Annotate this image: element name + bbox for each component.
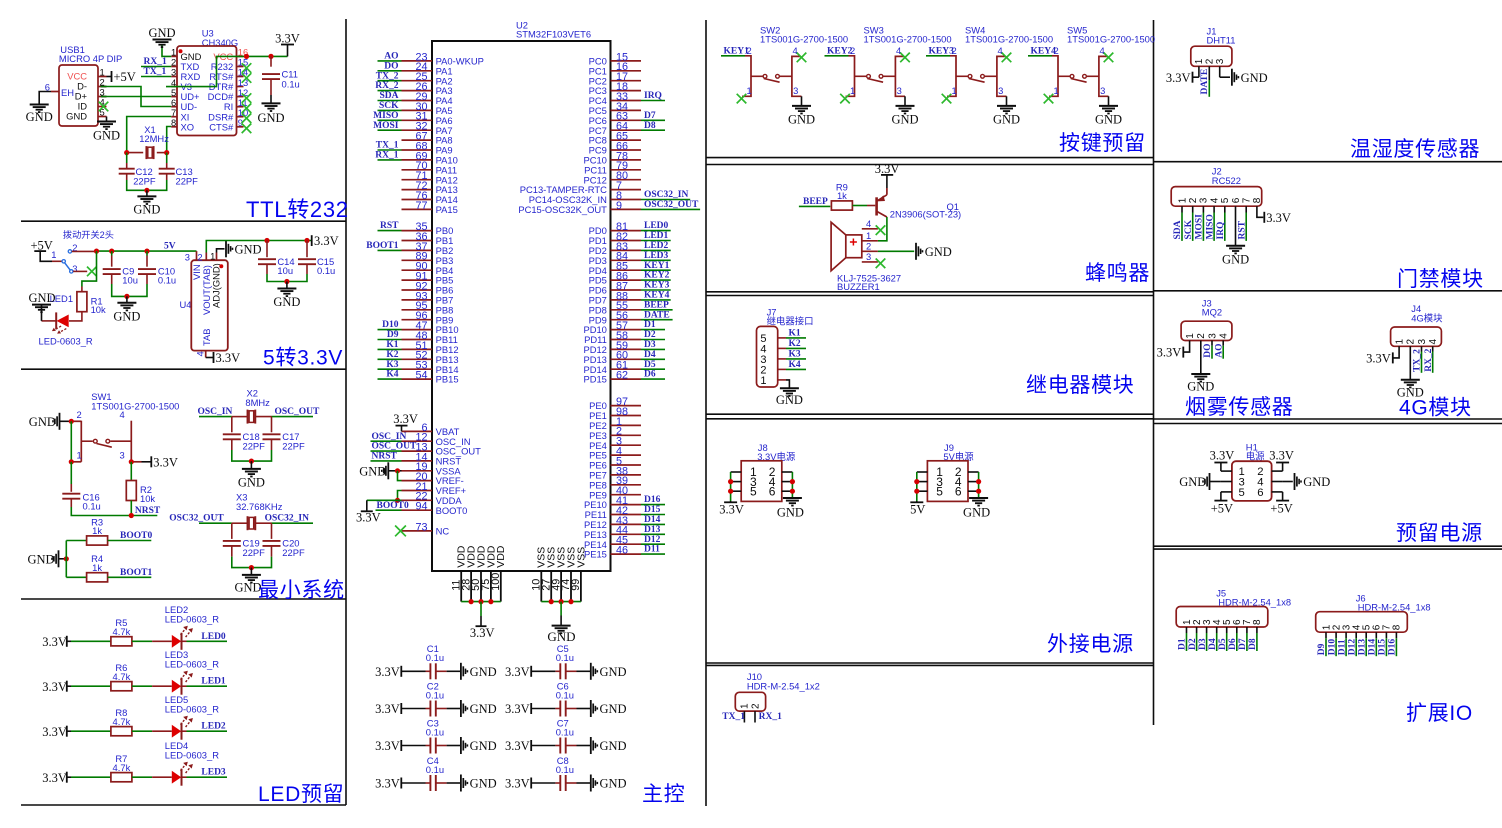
net label BOOT1 [366,241,398,251]
svg-text:4: 4 [1100,45,1105,56]
net label DATE [1200,69,1210,95]
wire D3 [1206,627,1208,651]
svg-text:1: 1 [740,703,751,709]
svg-text:3.3V: 3.3V [375,777,400,791]
svg-text:拨动开关2头: 拨动开关2头 [63,229,114,240]
junction [469,599,474,604]
IC U3 CH340G [171,28,248,136]
net label BEEP [803,197,828,207]
svg-text:5: 5 [1220,197,1231,203]
ground (C6) [591,700,627,717]
section title 4G模块 [1399,397,1472,420]
wire [1200,341,1202,375]
svg-text:OSC32_OUT: OSC32_OUT [644,200,699,210]
svg-text:1: 1 [1394,339,1405,345]
connector J9 5V电源 [917,442,979,502]
net label LED1 [644,231,669,241]
power 3.3V (R8 row) [42,725,71,739]
wire D1 [1186,627,1188,651]
wire [641,543,665,545]
junction [976,479,981,484]
svg-text:K1: K1 [386,340,398,350]
ground (J1 pin3) [1220,69,1268,86]
wire [641,339,665,341]
power 3.3V (J8 left pins) [719,501,744,516]
svg-text:5V: 5V [910,502,925,516]
wire [166,153,168,169]
LED LED1 LED-0603_R [39,293,93,347]
U2 pin 45 PE14 [584,535,641,550]
resistor R4 1k [87,553,108,582]
junction [790,479,795,484]
wire [436,745,461,747]
svg-text:D4: D4 [644,350,656,360]
svg-text:LED2: LED2 [644,241,669,251]
svg-text:22PF: 22PF [243,440,266,451]
svg-text:0.1u: 0.1u [317,265,335,276]
ground (C7) [591,737,627,754]
wire D6 [1236,627,1238,651]
IC U2 STM32F103VET6 [432,20,611,572]
wire [162,46,171,57]
power 3.3V (U4 TAB) [206,351,240,365]
connector J2 RC522 [1171,166,1263,207]
wire DATE [1208,80,1210,97]
svg-text:D16: D16 [644,495,661,505]
wire [531,670,560,672]
wire [146,190,148,196]
svg-text:IRQ: IRQ [644,91,662,101]
wire [786,337,806,339]
power 3.3V (J4 pin1) [1366,346,1399,365]
svg-text:+5V: +5V [1211,501,1233,515]
svg-text:扩展IO: 扩展IO [1406,702,1473,725]
svg-text:BOOT0: BOOT0 [436,505,468,516]
net label D9 [1317,643,1327,655]
ground (C8) [591,775,627,792]
capacitor C12 22PF [119,166,156,186]
svg-text:0.1u: 0.1u [426,689,444,700]
U2 pin 74 VSS [560,547,577,602]
svg-text:主控: 主控 [642,783,685,806]
section title 按键预留 [1059,132,1146,155]
net label LED1 [201,677,226,687]
svg-text:0.1u: 0.1u [556,652,574,663]
svg-text:LED3: LED3 [644,251,669,261]
U2 pin 44 PE13 [584,525,641,540]
wire [436,782,461,784]
junction [549,599,554,604]
U2 pin 83 PD2 [589,241,641,256]
net label LED3 [201,768,226,778]
svg-text:NRST: NRST [372,452,398,462]
capacitor C20 22PF [263,538,305,558]
wire [112,274,147,296]
svg-text:K4: K4 [386,370,398,380]
U2 pin 10 VSS [531,547,548,602]
U2 pin 23 PA0-WKUP [402,51,484,66]
ground (USB1 pin6) [26,105,53,125]
svg-text:9: 9 [616,200,622,212]
wire [641,100,665,102]
svg-text:22PF: 22PF [133,176,156,187]
svg-text:GND: GND [470,702,497,716]
svg-text:GND: GND [470,665,497,679]
wire [786,380,789,388]
svg-text:最小系统: 最小系统 [258,579,345,602]
svg-text:D10: D10 [382,320,399,330]
svg-text:MISO: MISO [1205,214,1215,239]
svg-text:MISO: MISO [373,111,398,121]
ground (J3 pin2) [1187,374,1214,394]
capacitor C13 22PF [159,166,198,186]
svg-text:LED2: LED2 [201,722,226,732]
net label K2 [789,339,801,349]
net label D10 [1327,639,1337,656]
wire [42,320,57,322]
capacitor C4 0.1u [426,755,444,791]
U2 pin 71 PA12 [402,170,458,185]
junction [109,249,114,254]
U2 pin 25 PA2 [402,71,453,86]
svg-text:DATE: DATE [644,310,670,320]
net label RX_1 [144,57,167,67]
svg-text:RX_2: RX_2 [375,81,398,91]
U2 pin 12 OSC_IN [402,432,471,447]
wire [266,241,268,258]
power 3.3V (regulator output) [312,234,339,248]
U2 pin 58 PD11 [584,330,641,345]
svg-text:62: 62 [616,370,628,382]
ground (U2 VSSA VREF-) [359,462,401,479]
net label SCK [1184,219,1194,239]
junction [914,479,919,484]
svg-text:OSC_IN: OSC_IN [198,407,233,417]
net label D1 [1178,638,1188,650]
wire [107,76,112,78]
U2 pin 2 PE3 [589,426,641,441]
svg-text:D13: D13 [644,525,661,535]
svg-text:3.3V: 3.3V [375,665,400,679]
wire [130,501,132,516]
U2 pin 4 PE5 [589,446,641,461]
svg-text:4: 4 [1428,339,1439,345]
power 3.3V (J3 pin1) [1157,341,1190,360]
svg-text:K4: K4 [789,360,801,370]
net label LED0 [644,221,669,231]
wire [1224,206,1226,241]
svg-text:6: 6 [769,484,776,498]
svg-text:1: 1 [952,85,957,96]
wire [878,250,914,252]
net label D7 [644,111,656,121]
ground (X2 caps) [238,469,265,490]
svg-text:D14: D14 [644,515,661,525]
U2 pin 55 PD8 [589,300,641,315]
wire [531,782,560,784]
power 3.3V (C5) [505,665,531,679]
svg-text:TX_1: TX_1 [376,141,399,151]
svg-text:烟雾传感器: 烟雾传感器 [1185,396,1294,419]
svg-text:DATE: DATE [1200,69,1210,95]
junction [488,599,493,604]
svg-text:1: 1 [210,251,215,262]
net label D16 [644,495,661,505]
net label OSC_OUT [272,407,321,417]
svg-text:PA15: PA15 [436,204,458,215]
wire [182,730,227,732]
net label D16 [1388,639,1398,656]
wire [182,776,227,778]
ground (BUZZER1 pin 2) [916,243,952,260]
svg-text:0.1u: 0.1u [158,275,176,286]
svg-text:3.3V: 3.3V [1269,448,1294,462]
net label KEY2 [827,47,853,57]
wire D13 [1365,632,1367,656]
junction [69,459,74,464]
svg-text:D15: D15 [644,505,661,515]
net label AO [384,52,398,62]
U2 pin 49 VSS [550,547,567,602]
net label D10 [382,320,399,330]
wire [130,462,132,481]
svg-text:D15: D15 [1378,639,1388,656]
U2 pin 61 PD14 [583,360,641,375]
wire [641,259,671,261]
svg-text:1: 1 [1177,197,1188,203]
capacitor C18 22PF [223,431,265,451]
power +5V (H1 pin6) [1270,492,1292,515]
svg-text:GND: GND [28,553,55,567]
net label OSC32_OUT [169,514,232,524]
switch SW1 1TS001G-2700-1500 [71,391,179,462]
switch SW3 1TS001G-2700-1500 [846,24,952,96]
svg-text:3: 3 [185,251,190,262]
svg-text:D3: D3 [644,340,656,350]
ground (U2 VSS) [547,602,575,644]
wire [1181,206,1183,241]
U2 pin 29 PA4 [402,91,453,106]
svg-text:PD15: PD15 [583,374,606,385]
section title 预留电源 [1396,522,1483,545]
wire [641,368,665,370]
U2 pin 88 PD7 [589,290,641,305]
svg-text:SDA: SDA [1173,220,1183,239]
power 3.3V (H1 pin2) [1269,448,1294,471]
U2 pin 99 VSS [570,547,587,602]
wire [270,79,272,103]
U2 pin 47 PB10 [402,320,459,335]
wire [1028,55,1052,57]
section title 烟雾传感器 [1185,396,1294,419]
wire [378,129,402,131]
svg-text:3.3V: 3.3V [1266,211,1291,225]
svg-text:32.768KHz: 32.768KHz [236,501,283,512]
svg-text:外接电源: 外接电源 [1047,633,1134,656]
no-connect X on U3 pin 14 [242,73,252,83]
svg-text:GND: GND [26,110,53,124]
ground (C3) [461,737,497,754]
crystal X2 8MHz [232,388,272,424]
transistor Q1 2N3906(SOT-23) [877,188,962,220]
svg-text:3.3V: 3.3V [505,702,530,716]
U2 pin 87 PD6 [589,280,641,295]
resistor R7 4.7k [111,753,132,782]
svg-text:3.3V: 3.3V [42,725,67,739]
section title LED预留 [258,783,344,806]
wire [641,553,665,555]
U2 pin 20 VREF- [402,471,464,486]
wire [378,119,402,121]
svg-text:温湿度传感器: 温湿度传感器 [1350,138,1480,161]
svg-text:RX_2: RX_2 [1424,348,1434,371]
capacitor C1 0.1u [426,643,444,679]
svg-text:3.3V: 3.3V [42,680,67,694]
net label D5 [1218,638,1228,650]
svg-text:2: 2 [77,409,82,420]
section title 扩展IO [1406,702,1473,725]
net label D2 [644,330,656,340]
svg-text:D8: D8 [1248,638,1258,650]
U2 pin 36 PB1 [402,231,454,246]
wire 5V net [94,250,196,252]
svg-text:3: 3 [1100,85,1105,96]
svg-text:GND: GND [1187,380,1214,394]
svg-text:CTS#: CTS# [209,121,234,132]
svg-text:GND: GND [547,629,575,644]
svg-text:KEY4: KEY4 [1031,47,1057,57]
svg-text:8: 8 [1252,619,1263,625]
wire [132,640,172,642]
wire [641,230,671,232]
svg-text:2: 2 [1188,197,1199,203]
svg-text:GND: GND [1241,71,1268,85]
junction [728,479,733,484]
svg-text:PB15: PB15 [436,374,459,385]
U2 pin 30 PA5 [402,101,453,116]
wire [371,450,402,452]
wire [641,269,671,271]
resistor R1 10k [77,292,106,315]
resistor R2 10k [126,481,155,504]
connector H1 电源 [1221,442,1283,501]
wire [71,685,111,687]
svg-text:100: 100 [490,573,502,591]
wire [641,319,673,321]
net label SCK [379,101,399,111]
U2 pin 64 PC7 [589,121,641,136]
LED LED5 LED-0603_R [165,694,219,740]
U2 pin 81 PD0 [589,221,641,236]
U2 pin 76 PA14 [402,190,458,205]
connector J5 HDR-M-2.54_1x8 [1176,587,1291,627]
svg-text:3.3V: 3.3V [375,702,400,716]
svg-text:0.1u: 0.1u [83,501,101,512]
svg-text:22PF: 22PF [243,547,266,558]
connector J4 4G模块 [1391,303,1444,346]
U2 pin 38 PE7 [589,465,641,480]
net label D13 [644,525,661,535]
section title 主控 [642,783,685,806]
svg-text:1: 1 [1185,333,1196,339]
net label SDA [1173,220,1183,239]
wire [801,96,803,106]
connector J1 DHT11 [1191,25,1236,80]
svg-text:D12: D12 [644,535,661,545]
no-connect X on U3 pin 9 [242,124,252,134]
capacitor C10 0.1u [138,265,176,285]
svg-text:KEY1: KEY1 [724,47,750,57]
wire [378,90,402,92]
wire [378,159,402,161]
resistor R9 1k [831,181,852,210]
wire [1108,96,1110,106]
wire [132,776,172,778]
no-connect X on SW2 pin 1 [737,94,747,104]
svg-text:D1: D1 [1178,638,1188,650]
svg-text:22PF: 22PF [176,176,199,187]
svg-text:TX_1: TX_1 [722,712,745,722]
svg-text:GND: GND [470,739,497,753]
wire [267,264,307,281]
U2 pin 31 PA6 [402,111,453,126]
power +5V (H1 pin5) [1211,492,1233,515]
U2 pin 11 VDD [450,545,467,601]
svg-text:2: 2 [197,251,202,262]
U2 pin 8 PC14-OSC32K_IN [529,190,641,205]
svg-text:GND: GND [1095,113,1122,127]
net label D1 [644,320,656,330]
U2 pin 37 PB2 [402,241,454,256]
wire [126,153,128,169]
net label OSC32_IN [265,514,313,524]
svg-text:GND: GND [66,111,87,122]
svg-text:D2: D2 [1188,638,1198,650]
net label RX_1 [375,151,398,161]
svg-text:5: 5 [750,484,757,498]
power 3.3V (H1 pin1) [1210,448,1235,471]
junction [268,54,273,59]
junction [244,54,249,59]
wire [1245,206,1247,241]
svg-text:KEY2: KEY2 [827,47,853,57]
wire [82,251,97,292]
svg-text:K2: K2 [386,350,398,360]
capacitor C19 22PF [223,538,265,558]
svg-text:3.3V: 3.3V [1166,71,1191,85]
U2 pin 54 PB15 [402,370,459,385]
power 3.3V (C8) [505,777,531,791]
connector USB1 MICRO 4P DIP [45,44,123,126]
ground (USB1 pin5) [93,122,120,143]
svg-text:1: 1 [51,249,56,260]
svg-text:KEY3: KEY3 [929,47,955,57]
svg-text:D12: D12 [1347,639,1357,656]
power 3.3V (U3 VCC) [275,31,300,56]
svg-text:BOOT0: BOOT0 [120,531,152,541]
U2 pin 18 PC3 [589,81,641,96]
svg-text:按键预留: 按键预留 [1059,132,1146,155]
ground (C14 C15) [273,289,300,310]
svg-text:SCK: SCK [1184,219,1194,239]
U2 pin 97 PE0 [589,396,641,411]
svg-text:GND: GND [133,202,160,216]
resistor R6 4.7k [111,662,132,691]
wire [367,499,402,501]
net label D11 [1337,639,1347,655]
svg-text:OSC_IN: OSC_IN [372,432,407,442]
net label K1 [386,340,398,350]
